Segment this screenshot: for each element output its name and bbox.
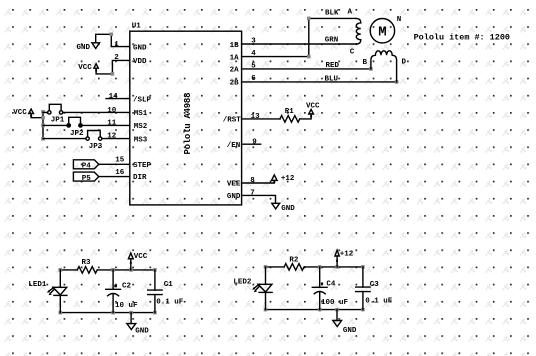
wire pin 5 to winding terminal B bbox=[242, 68, 371, 70]
wire pin 1 to ground bbox=[96, 34, 130, 46]
svg-text:4: 4 bbox=[251, 50, 256, 58]
node bottom C4 bbox=[318, 308, 322, 312]
node top C4 bbox=[318, 265, 322, 269]
ground symbol at pin 7 bbox=[272, 203, 295, 213]
svg-text:C: C bbox=[350, 49, 355, 57]
node corner A-wire top bbox=[307, 17, 311, 21]
svg-text:BLU: BLU bbox=[325, 75, 339, 83]
power symbol VCC at R1 bbox=[306, 103, 320, 118]
svg-text:14: 14 bbox=[109, 93, 119, 101]
svg-text:1A: 1A bbox=[230, 54, 240, 62]
svg-text:GRN: GRN bbox=[325, 37, 339, 45]
capacitor C4 bbox=[312, 267, 348, 310]
resistor R3 bbox=[77, 259, 97, 273]
ground symbol near pin 1 bbox=[77, 43, 100, 52]
power symbol +12 at pin 8 bbox=[272, 175, 295, 183]
svg-text:GND: GND bbox=[77, 44, 91, 52]
svg-text:+12: +12 bbox=[281, 175, 295, 183]
power symbol VCC LED1 circuit bbox=[128, 253, 147, 270]
svg-text:VDD: VDD bbox=[133, 58, 147, 66]
node rail jp2 bbox=[41, 124, 45, 128]
wire JP1 to pin 10 bbox=[63, 111, 130, 113]
inductor motor winding B-D bbox=[371, 51, 397, 82]
power symbol +12 LED2 circuit bbox=[335, 250, 354, 267]
power symbol VCC near pin 2 bbox=[78, 64, 98, 72]
node corner pin1 wire bbox=[110, 33, 114, 37]
svg-text:R2: R2 bbox=[289, 257, 299, 265]
svg-text:15: 15 bbox=[115, 157, 125, 165]
svg-text:100 uF: 100 uF bbox=[321, 299, 349, 307]
wire VCC to rail bbox=[31, 114, 43, 118]
wire JP3 to pin 12 bbox=[102, 138, 130, 140]
node bottom C2 bbox=[111, 311, 115, 315]
svg-text:12: 12 bbox=[107, 133, 117, 141]
wire top rail right bbox=[97, 269, 155, 271]
svg-text:+12: +12 bbox=[340, 251, 354, 259]
node rail top bbox=[41, 110, 45, 114]
jumper JP3 bbox=[43, 131, 103, 152]
node top C2 bbox=[111, 268, 115, 272]
node bottom GND bbox=[129, 311, 133, 315]
svg-text:GND: GND bbox=[227, 193, 241, 201]
node top right bbox=[153, 268, 157, 272]
svg-text:LED1: LED1 bbox=[28, 281, 47, 289]
node top left bbox=[59, 268, 63, 272]
svg-text:LED2: LED2 bbox=[233, 278, 252, 286]
svg-text:RED: RED bbox=[326, 62, 340, 70]
wire LED1 cathode bbox=[59, 295, 61, 312]
svg-text:5: 5 bbox=[251, 62, 256, 70]
svg-text:2: 2 bbox=[114, 54, 119, 62]
svg-text:VCC: VCC bbox=[306, 103, 320, 111]
wire pin 6 to winding terminal D bbox=[242, 81, 397, 83]
svg-text:GND: GND bbox=[343, 327, 357, 335]
op-amp U1 IC body Pololu A4988 bbox=[130, 22, 242, 205]
wire LED2 anode bbox=[265, 267, 267, 284]
svg-text:1B: 1B bbox=[230, 42, 240, 50]
svg-text:/RST: /RST bbox=[223, 117, 242, 125]
svg-text:C2: C2 bbox=[122, 283, 132, 291]
svg-text:DIR: DIR bbox=[133, 174, 147, 182]
svg-text:JP2: JP2 bbox=[70, 130, 84, 138]
svg-text:BLK: BLK bbox=[325, 9, 339, 17]
svg-text:P5: P5 bbox=[82, 175, 92, 183]
svg-text:C3: C3 bbox=[370, 281, 380, 289]
inductor motor winding A-C bbox=[356, 18, 361, 44]
svg-text:13: 13 bbox=[251, 113, 261, 121]
svg-text:11: 11 bbox=[107, 120, 117, 128]
wire LED1 anode bbox=[59, 270, 61, 287]
svg-text:P4: P4 bbox=[82, 162, 92, 170]
wire pin 9 stub bbox=[242, 143, 261, 145]
wire pin 3 to winding terminal C bbox=[242, 43, 357, 45]
node top right bbox=[361, 265, 365, 269]
node bottom right bbox=[153, 311, 157, 315]
svg-text:2A: 2A bbox=[230, 67, 240, 75]
svg-text:MS3: MS3 bbox=[134, 136, 148, 144]
node top +12 bbox=[335, 265, 339, 269]
svg-text:GND: GND bbox=[133, 44, 147, 52]
svg-text:7: 7 bbox=[250, 190, 255, 198]
wire pin 7 to ground bbox=[242, 195, 276, 203]
LED D1 bbox=[28, 281, 67, 296]
capacitor C1 bbox=[148, 270, 184, 313]
svg-text:STEP: STEP bbox=[133, 162, 152, 170]
svg-text:/SLP: /SLP bbox=[133, 96, 152, 104]
svg-text:9: 9 bbox=[252, 139, 257, 147]
svg-text:MS1: MS1 bbox=[134, 110, 148, 118]
capacitor C2 bbox=[106, 270, 138, 313]
node bottom GND bbox=[335, 308, 339, 312]
svg-text:VCC: VCC bbox=[134, 253, 148, 261]
svg-text:VCC: VCC bbox=[78, 64, 92, 72]
svg-text:0.1 uF: 0.1 uF bbox=[156, 299, 184, 307]
node bottom left bbox=[59, 311, 63, 315]
svg-text:M: M bbox=[378, 25, 386, 41]
wire LED2 cathode bbox=[265, 292, 267, 309]
node top VCC bbox=[129, 268, 133, 272]
resistor R2 bbox=[284, 257, 304, 271]
svg-text:6: 6 bbox=[251, 75, 256, 83]
node winding B bbox=[369, 67, 373, 71]
svg-text:A: A bbox=[348, 9, 353, 17]
svg-text:VCC: VCC bbox=[13, 109, 27, 117]
power symbol VCC left rail bbox=[13, 109, 33, 117]
wire pin 13 to R1 bbox=[242, 118, 280, 120]
svg-text:C1: C1 bbox=[164, 281, 174, 289]
svg-text:U1: U1 bbox=[132, 22, 142, 30]
svg-text:N: N bbox=[397, 16, 402, 24]
node corner pin2 wire bbox=[111, 72, 115, 76]
wire P5 to pin 16 bbox=[99, 176, 130, 178]
wire P4 to pin 15 bbox=[99, 163, 130, 165]
connector P4 bbox=[73, 160, 98, 171]
svg-text:8: 8 bbox=[250, 177, 255, 185]
motor M1 circle bbox=[370, 19, 394, 43]
wire pin 14 stub bbox=[106, 98, 130, 100]
node corner A-wire bottom bbox=[307, 55, 311, 59]
node rail vcc feed bbox=[41, 116, 45, 120]
svg-text:C4: C4 bbox=[326, 280, 336, 288]
svg-text:D: D bbox=[402, 59, 407, 67]
svg-text:B: B bbox=[363, 59, 368, 67]
svg-text:MS2: MS2 bbox=[134, 123, 148, 131]
svg-text:GND: GND bbox=[135, 327, 149, 335]
wire pin 2 to VCC bbox=[96, 60, 130, 74]
svg-text:/EN: /EN bbox=[227, 142, 241, 150]
wire pin 4 to winding terminal A bbox=[242, 18, 357, 56]
wire VCC rail vertical bbox=[42, 112, 44, 139]
svg-text:R3: R3 bbox=[82, 259, 92, 267]
capacitor C3 bbox=[356, 267, 393, 310]
node bottom left bbox=[264, 308, 268, 312]
node rail jp3 bbox=[41, 137, 45, 141]
svg-text:1: 1 bbox=[114, 41, 119, 49]
svg-text:10: 10 bbox=[107, 107, 117, 115]
LED D2 bbox=[233, 278, 272, 292]
svg-text:R1: R1 bbox=[285, 108, 295, 116]
svg-text:2B: 2B bbox=[230, 80, 240, 88]
node winding D bbox=[395, 80, 399, 84]
connector P5 bbox=[73, 172, 98, 183]
svg-text:GND: GND bbox=[281, 205, 295, 213]
svg-text:16: 16 bbox=[115, 169, 125, 177]
node top left bbox=[264, 265, 268, 269]
wire pin 8 to +12 bbox=[242, 180, 275, 183]
wire bottom rail bbox=[60, 312, 155, 314]
svg-text:Pololu item #: 1200: Pololu item #: 1200 bbox=[414, 33, 510, 43]
wire JP2 to pin 11 bbox=[82, 124, 130, 126]
svg-text:3: 3 bbox=[251, 38, 256, 46]
svg-text:JP1: JP1 bbox=[51, 116, 65, 124]
wire top rail left bbox=[266, 266, 285, 268]
svg-text:VEE: VEE bbox=[227, 181, 241, 189]
svg-text:Pololu A4988: Pololu A4988 bbox=[183, 93, 193, 155]
svg-text:JP3: JP3 bbox=[89, 143, 103, 151]
ground symbol LED2 circuit bbox=[333, 310, 357, 335]
ground symbol LED1 circuit bbox=[127, 313, 149, 336]
jumper JP1 bbox=[43, 104, 65, 124]
svg-text:0.1 uF: 0.1 uF bbox=[365, 297, 393, 305]
jumper JP2 bbox=[43, 117, 84, 138]
wire R1 to VCC bbox=[300, 114, 311, 119]
wire top rail left bbox=[60, 269, 77, 271]
node bottom right bbox=[361, 308, 365, 312]
resistor R1 bbox=[280, 108, 300, 122]
wire bottom rail bbox=[266, 309, 363, 311]
svg-text:10 uF: 10 uF bbox=[115, 302, 138, 310]
wire top rail right bbox=[304, 266, 363, 268]
